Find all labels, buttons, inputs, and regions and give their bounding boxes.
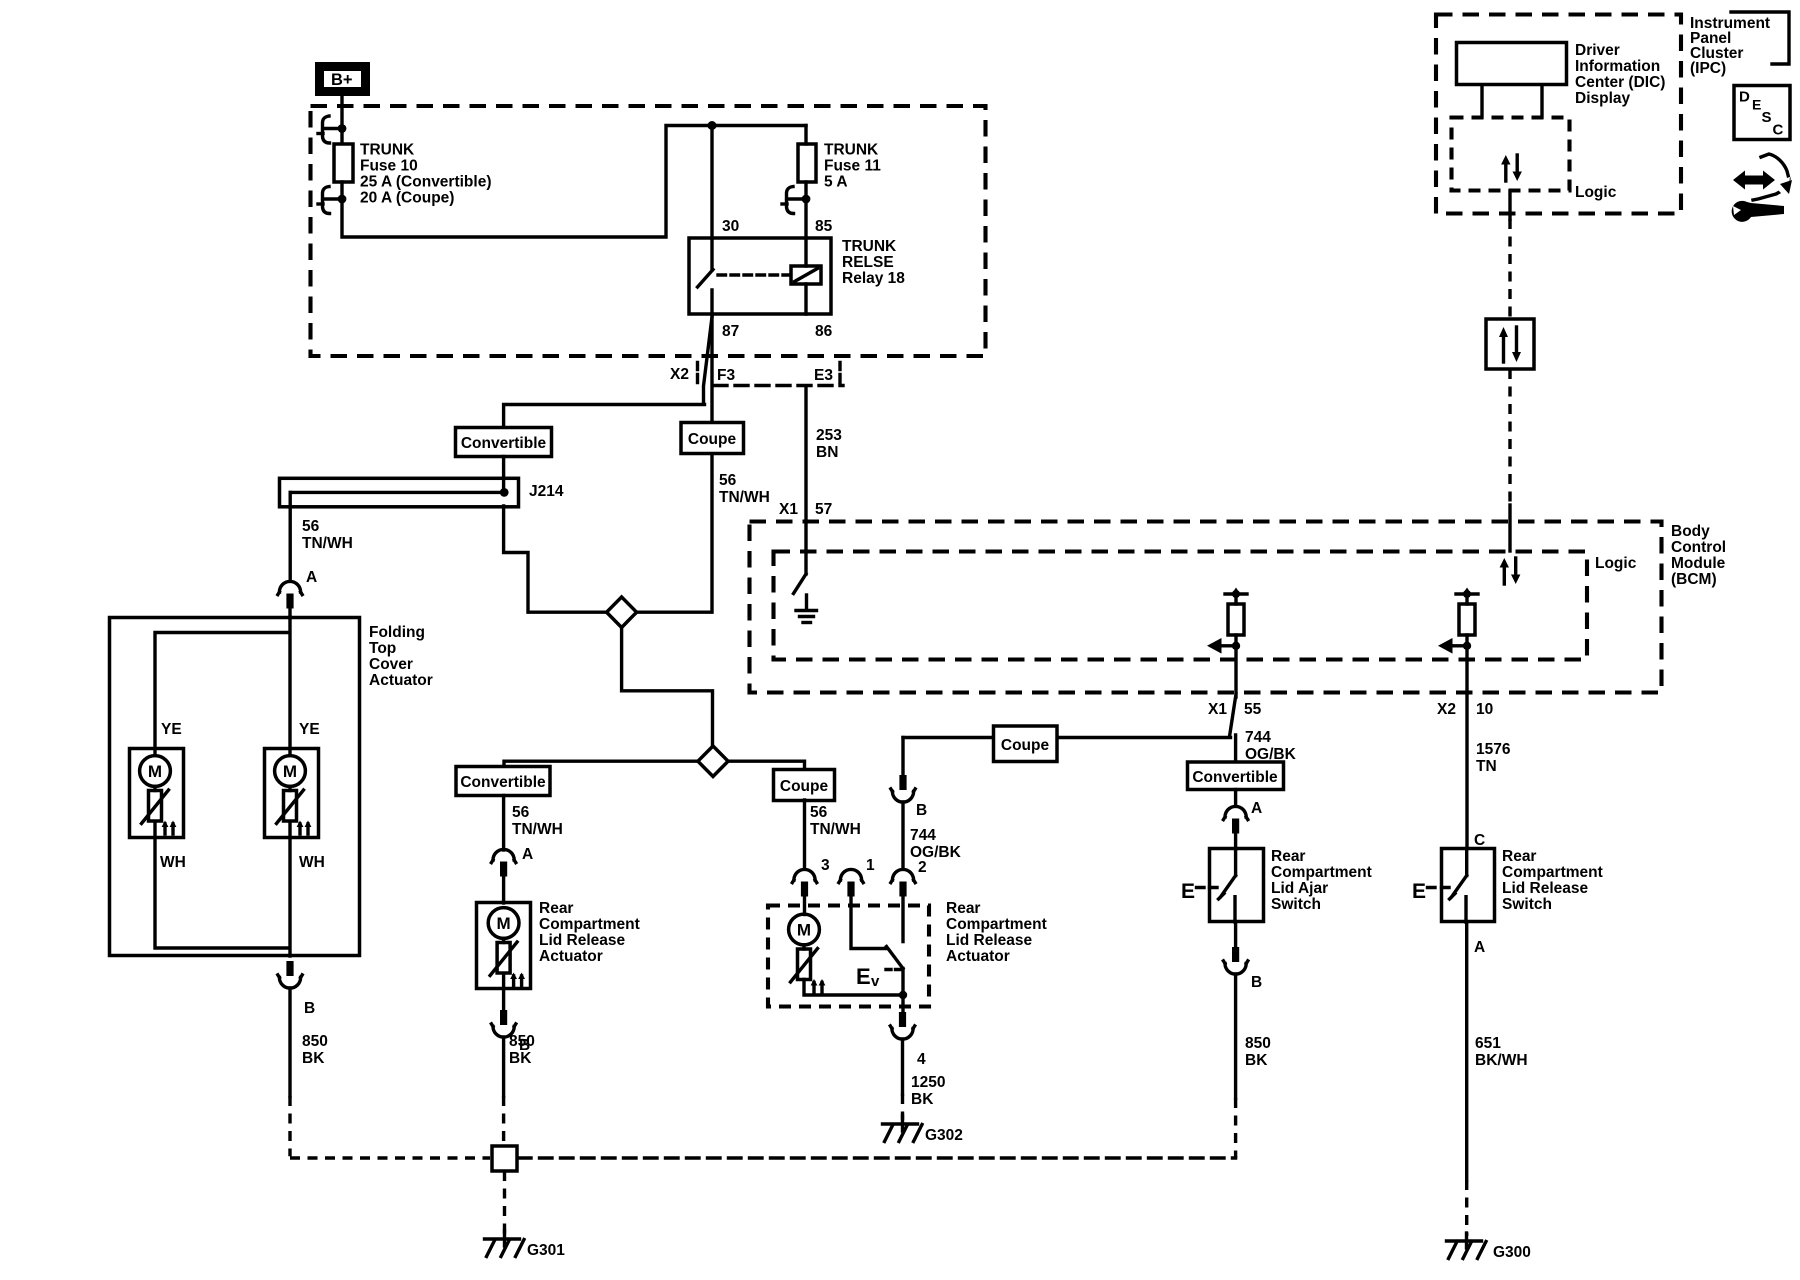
circuit label 744 OG/BK: [1245, 729, 1297, 763]
svg-text:10: 10: [1476, 701, 1493, 718]
clip connector below fuse 11 with junction dot: [782, 187, 810, 214]
svg-text:YE: YE: [299, 721, 320, 738]
svg-text:5 A: 5 A: [824, 174, 848, 191]
svg-text:850: 850: [509, 1033, 535, 1050]
ground G302: [883, 1116, 923, 1142]
svg-text:Fuse 10: Fuse 10: [360, 158, 418, 175]
splice diamond upper: [607, 597, 637, 628]
wire switch blade to pin 4 junction: [901, 969, 904, 996]
svg-text:1576: 1576: [1476, 741, 1511, 758]
body control module dashed box: [750, 522, 1662, 693]
circuit label 651 BK/WH: [1475, 1035, 1528, 1069]
svg-text:BN: BN: [816, 444, 838, 461]
svg-text:A: A: [522, 846, 533, 863]
svg-text:850: 850: [1245, 1035, 1271, 1052]
connector pin 3: [792, 869, 816, 896]
Convertible branch box 2: [456, 767, 550, 796]
IPC logic dashed box: [1452, 118, 1570, 191]
serial data arrows in link box: [1499, 327, 1521, 362]
wire pin 1 to switch: [851, 897, 886, 949]
svg-text:Actuator: Actuator: [369, 672, 433, 689]
dashed serial data wire to BCM: [1508, 369, 1511, 505]
wire pin 2 down to switch contact: [901, 897, 904, 942]
svg-text:BK/WH: BK/WH: [1475, 1052, 1528, 1069]
svg-text:Folding: Folding: [369, 624, 425, 641]
wire coupe box 2 down to pin 3: [803, 800, 806, 869]
svg-text:BK: BK: [509, 1050, 532, 1067]
wire X1-55 to coupe splice: [903, 735, 1236, 762]
BCM input sense resistor (lid release): [1438, 588, 1478, 654]
junction dot pin 4: [899, 991, 907, 999]
wire connector B to pin 2: [901, 802, 904, 869]
svg-text:Convertible: Convertible: [1192, 769, 1278, 786]
svg-text:744: 744: [1245, 729, 1271, 746]
svg-text:B+: B+: [331, 71, 353, 89]
wire convertible box 3 to connector A: [1234, 790, 1237, 805]
folding top cover actuator label: [369, 624, 433, 689]
svg-text:Rear: Rear: [539, 900, 573, 917]
dashed wire to G300: [1465, 1180, 1468, 1236]
svg-text:B: B: [304, 1000, 315, 1017]
svg-text:Compartment: Compartment: [1502, 864, 1603, 881]
svg-text:E: E: [1412, 880, 1426, 903]
svg-text:C: C: [1773, 122, 1784, 139]
dashed ground bus to lid ajar switch: [519, 1156, 1236, 1159]
page corner bracket: [1731, 12, 1789, 64]
wire motor return to pin 4: [804, 980, 903, 996]
wire relay 87 to coupe/convertible split: [710, 314, 713, 423]
right motor M2 with thermal protector: [275, 756, 312, 834]
IPC label: [1690, 15, 1770, 77]
svg-text:Compartment: Compartment: [1271, 864, 1372, 881]
splice diamond lower: [698, 746, 728, 777]
svg-text:G301: G301: [527, 1242, 565, 1259]
svg-text:B: B: [916, 802, 927, 819]
svg-text:A: A: [1251, 800, 1262, 817]
wire relay 86 to BCM X1-57 circuit 253: [804, 386, 807, 521]
circuit label 1576 TN: [1476, 741, 1511, 775]
svg-text:BK: BK: [1245, 1052, 1268, 1069]
wire convertible box 2 down: [502, 796, 505, 851]
wire into folding top box: [288, 608, 291, 618]
wire coupe box to diamond splice: [637, 454, 712, 612]
wire diamond to coupe actuator branch: [728, 761, 804, 770]
svg-text:Convertible: Convertible: [460, 774, 546, 791]
BCM internal ground symbol: [796, 595, 817, 623]
connector E3 right vertical dashes: [838, 363, 841, 383]
svg-text:Top: Top: [369, 640, 396, 657]
wire folding top B ground lead 850 BK: [288, 988, 291, 1096]
ground G301: [485, 1231, 525, 1257]
motor M4 with thermal protector: [789, 914, 826, 992]
circuit label 56 TN/WH (convertible): [512, 804, 563, 838]
svg-text:TRUNK: TRUNK: [842, 238, 897, 255]
svg-text:G302: G302: [925, 1127, 963, 1144]
svg-text:E: E: [1752, 97, 1761, 113]
splice pack J214: [280, 478, 519, 507]
svg-text:Actuator: Actuator: [946, 948, 1010, 965]
connector row bottom dashed edge: [714, 384, 843, 387]
wire pin 4 to ground: [901, 1039, 904, 1094]
svg-text:Lid Release: Lid Release: [946, 932, 1033, 949]
ground splice box S301: [492, 1146, 517, 1171]
svg-text:Module: Module: [1671, 555, 1726, 572]
lid release actuator label: [539, 900, 640, 965]
DIC display legs: [1482, 85, 1542, 117]
svg-text:C: C: [1474, 832, 1485, 849]
svg-text:2: 2: [918, 859, 927, 876]
connector B lid release actuator: [491, 1010, 515, 1037]
svg-text:BK: BK: [302, 1050, 325, 1067]
svg-text:Coupe: Coupe: [688, 431, 737, 448]
folding top cover actuator box: [110, 618, 360, 956]
wire ajar switch to connector B: [1234, 922, 1237, 947]
connector B (coupe jumper harness): [891, 775, 915, 802]
svg-text:Convertible: Convertible: [461, 435, 547, 452]
J214 splice junction dot: [500, 488, 509, 497]
wire into actuator: [502, 876, 505, 903]
svg-text:4: 4: [917, 1051, 926, 1068]
wire resistor to X1-55: [1230, 646, 1237, 737]
Coupe branch box 3: [994, 726, 1058, 762]
svg-text:Compartment: Compartment: [539, 916, 640, 933]
dashed wire to ground splice box: [502, 1096, 505, 1146]
svg-text:Compartment: Compartment: [946, 916, 1047, 933]
svg-text:(BCM): (BCM): [1671, 571, 1717, 588]
svg-text:Center (DIC): Center (DIC): [1575, 74, 1665, 91]
tools/navigation icon: [1732, 154, 1792, 222]
Coupe branch box 2: [774, 770, 835, 801]
wire fuse 10 to relay feed loop: [342, 126, 806, 238]
BCM logic inner dashed box: [774, 552, 1588, 660]
svg-text:WH: WH: [160, 854, 186, 871]
wire relay 87 branch jog to convertible: [504, 317, 712, 428]
svg-text:253: 253: [816, 427, 842, 444]
connector B lid ajar switch: [1223, 947, 1247, 974]
svg-text:E: E: [1181, 880, 1195, 903]
svg-text:TRUNK: TRUNK: [824, 142, 879, 159]
relay coil: [791, 266, 821, 284]
svg-text:Cover: Cover: [369, 656, 413, 673]
dashed serial data wire: [1508, 219, 1511, 319]
release switch solenoid E link: [1412, 880, 1449, 903]
svg-text:Rear: Rear: [1502, 848, 1536, 865]
ajar switch solenoid E link: [1181, 880, 1217, 903]
svg-text:(IPC): (IPC): [1690, 60, 1726, 77]
wire convertible box to J214: [502, 457, 505, 490]
wire resistor to X2-10: [1465, 646, 1468, 848]
svg-text:E: E: [856, 964, 871, 989]
wire to fuse 11: [804, 126, 807, 145]
J214 internal bus wire: [290, 491, 503, 494]
connector X2 vertical dashes: [696, 363, 699, 383]
terminal label X1 57: [779, 501, 832, 518]
svg-text:J214: J214: [529, 483, 564, 500]
wire coupe box 3 to connector B: [901, 738, 904, 776]
instrument panel cluster dashed box: [1436, 15, 1681, 214]
svg-text:20 A (Coupe): 20 A (Coupe): [360, 190, 454, 207]
left motor M1 with thermal protector: [140, 756, 177, 834]
svg-text:TN/WH: TN/WH: [512, 821, 563, 838]
fuse 11 label: [824, 142, 881, 191]
svg-text:Actuator: Actuator: [539, 948, 603, 965]
svg-text:85: 85: [815, 218, 833, 235]
relay K18 TRUNK RELSE box: [689, 238, 831, 314]
svg-text:651: 651: [1475, 1035, 1501, 1052]
svg-text:E3: E3: [814, 367, 833, 384]
relay coil feed wires: [804, 238, 807, 314]
wire J214 leg down to diamond splice: [504, 506, 607, 612]
internal wires to both motors: [155, 617, 290, 755]
wire 253 BN into BCM internal switch: [804, 521, 807, 574]
connector B folding top cover actuator: [278, 961, 302, 988]
svg-text:1250: 1250: [911, 1074, 945, 1091]
svg-text:RELSE: RELSE: [842, 254, 894, 271]
circuit label 56 TN/WH (coupe): [719, 472, 770, 506]
ground G300: [1447, 1233, 1487, 1259]
BCM internal switch to ground: [794, 574, 807, 594]
Convertible branch box: [456, 428, 552, 457]
ajar switch label: [1271, 848, 1372, 913]
svg-text:Lid Ajar: Lid Ajar: [1271, 880, 1328, 897]
fuse 10 label: [360, 142, 492, 207]
svg-text:Rear: Rear: [946, 900, 980, 917]
ajar switch internals: [1219, 849, 1236, 923]
svg-text:OG/BK: OG/BK: [910, 844, 962, 861]
relay actuation dashed link: [718, 273, 789, 276]
svg-text:30: 30: [722, 218, 739, 235]
wire junction out of box: [901, 995, 904, 1012]
DIC display: [1457, 43, 1567, 85]
connector A folding top cover actuator: [278, 581, 302, 608]
terminal label X1 55: [1208, 701, 1262, 718]
power distribution dashed box: [311, 106, 986, 356]
rear compartment lid release switch box: [1442, 849, 1495, 922]
svg-text:56: 56: [719, 472, 737, 489]
circuit label 56 TN/WH (convertible feed): [302, 518, 353, 552]
circuit label 850 BK (ajar switch): [1245, 1035, 1271, 1069]
svg-text:B: B: [1251, 974, 1262, 991]
relay label: [842, 238, 905, 287]
svg-text:X2: X2: [1437, 701, 1456, 718]
release switch label: [1502, 848, 1603, 913]
svg-text:A: A: [306, 569, 317, 586]
dashed wire to G302: [901, 1094, 904, 1120]
wire into ajar switch: [1234, 833, 1237, 849]
svg-text:TRUNK: TRUNK: [360, 142, 415, 159]
svg-text:BK: BK: [911, 1091, 934, 1108]
connector pin 4: [890, 1012, 914, 1039]
wire B+ down to fuse 10: [340, 97, 343, 142]
wire motor to connector B: [502, 974, 505, 1011]
DIC label: [1575, 42, 1665, 107]
circuit label 1250 BK: [911, 1074, 945, 1108]
svg-text:25 A (Convertible): 25 A (Convertible): [360, 174, 492, 191]
svg-text:Body: Body: [1671, 523, 1710, 540]
battery feed B+ terminal: [320, 67, 366, 92]
svg-text:56: 56: [302, 518, 320, 535]
svg-text:56: 56: [512, 804, 530, 821]
connector pin 1: [839, 869, 863, 896]
svg-text:TN/WH: TN/WH: [719, 489, 770, 506]
serial data stub into BCM: [1508, 505, 1511, 551]
solenoid valve actuated switch blade: [887, 947, 904, 969]
BCM label: [1671, 523, 1726, 588]
circuit label 850 BK (folding top): [302, 1033, 328, 1067]
Coupe branch box: [681, 423, 744, 454]
wire junction down to relay pin 30: [710, 126, 713, 239]
svg-text:Information: Information: [1575, 58, 1660, 75]
svg-text:v: v: [871, 973, 880, 990]
svg-text:Switch: Switch: [1271, 896, 1321, 913]
svg-text:Control: Control: [1671, 539, 1726, 556]
lid release actuator (convertible) box: [477, 903, 531, 989]
svg-text:TN/WH: TN/WH: [302, 535, 353, 552]
serial data stub below IPC logic: [1508, 191, 1511, 219]
dashed ground wire to splice bus: [290, 1096, 490, 1158]
svg-text:WH: WH: [299, 854, 325, 871]
svg-text:Coupe: Coupe: [1001, 737, 1050, 754]
svg-text:YE: YE: [161, 721, 182, 738]
svg-text:86: 86: [815, 323, 833, 340]
svg-text:850: 850: [302, 1033, 328, 1050]
svg-text:1: 1: [866, 857, 875, 874]
wire fuse 11 to relay pin 85: [804, 182, 807, 238]
svg-text:Coupe: Coupe: [780, 778, 829, 795]
wire pin 3 into box: [803, 897, 806, 915]
motor M3 with thermal protector: [488, 908, 525, 986]
svg-text:Rear: Rear: [1271, 848, 1305, 865]
internal return wires joining motors: [155, 822, 290, 957]
relay switch contact: [698, 238, 714, 314]
serial data arrows inside IPC logic: [1501, 155, 1522, 181]
svg-text:Lid Release: Lid Release: [1502, 880, 1589, 897]
DESC icon box: [1734, 86, 1790, 140]
wire to ground splice: [502, 1037, 505, 1096]
circuit label 850 BK: [509, 1033, 535, 1067]
connector A lid release actuator: [491, 849, 515, 876]
svg-text:55: 55: [1244, 701, 1262, 718]
circuit label 744 OG/BK (coupe): [910, 827, 962, 861]
svg-text:Switch: Switch: [1502, 896, 1552, 913]
svg-text:A: A: [1474, 939, 1485, 956]
svg-text:Display: Display: [1575, 90, 1631, 107]
svg-text:56: 56: [810, 804, 828, 821]
lid release actuator (coupe) label: [946, 900, 1047, 965]
svg-text:Lid Release: Lid Release: [539, 932, 626, 949]
circuit label 56 TN/WH (coupe branch): [810, 804, 861, 838]
svg-text:D: D: [1739, 89, 1750, 106]
junction node above relay pin 30: [708, 121, 717, 130]
fuse 11: [798, 144, 816, 182]
svg-text:TN: TN: [1476, 758, 1497, 775]
clip connector above fuse 10 with junction dot: [318, 116, 346, 143]
serial data arrows inside BCM logic: [1500, 558, 1521, 584]
svg-text:Relay 18: Relay 18: [842, 270, 905, 287]
BCM input sense resistor (lid ajar): [1207, 588, 1247, 654]
right motor housing box: [265, 749, 319, 838]
clip connector below fuse 10 with junction dot: [318, 187, 346, 214]
svg-text:F3: F3: [717, 367, 735, 384]
rear compartment lid ajar switch box: [1210, 849, 1264, 922]
connector A lid ajar switch: [1223, 806, 1247, 833]
release switch internals: [1450, 849, 1467, 923]
wire J214 to folding top cover actuator: [289, 492, 292, 581]
svg-text:Driver: Driver: [1575, 42, 1620, 59]
solenoid valve symbol Ev: [856, 964, 901, 990]
left motor housing box: [130, 749, 184, 838]
connector pin 2: [891, 869, 915, 896]
wire diamond to convertible actuator branch: [504, 761, 698, 767]
svg-text:X2: X2: [670, 366, 689, 383]
svg-text:57: 57: [815, 501, 832, 518]
terminal label X2 10: [1437, 701, 1493, 718]
svg-text:3: 3: [821, 857, 830, 874]
svg-text:X1: X1: [1208, 701, 1227, 718]
wire diamond to diamond: [622, 628, 713, 747]
svg-text:S: S: [1762, 109, 1772, 126]
lid release actuator (coupe) dashed box: [768, 906, 929, 1007]
dashed wire to ground bus: [1234, 1098, 1237, 1158]
wire release switch ground lead 651: [1465, 922, 1468, 1180]
svg-text:G300: G300: [1493, 1244, 1531, 1261]
svg-text:X1: X1: [779, 501, 798, 518]
wire ajar switch ground lead: [1234, 974, 1237, 1098]
svg-text:Logic: Logic: [1595, 555, 1637, 572]
svg-text:Logic: Logic: [1575, 184, 1617, 201]
svg-text:Fuse 11: Fuse 11: [824, 158, 881, 175]
svg-text:TN/WH: TN/WH: [810, 821, 861, 838]
fuse 10: [334, 144, 353, 182]
circuit label 253 BN: [816, 427, 842, 461]
dashed wire splice to ground G301: [503, 1171, 506, 1234]
serial data link box: [1486, 319, 1534, 369]
Convertible branch box 3: [1188, 762, 1284, 790]
svg-text:87: 87: [722, 323, 739, 340]
svg-text:744: 744: [910, 827, 936, 844]
